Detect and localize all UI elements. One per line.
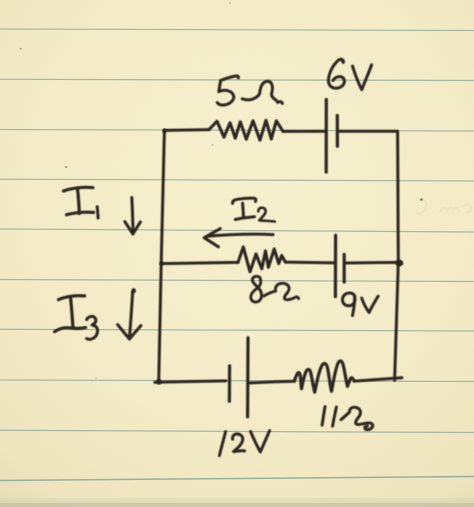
corner blob bottom-left [156, 379, 162, 385]
label I1 [64, 187, 93, 191]
label ohm after 5 [242, 81, 282, 103]
faint ink bleed-through ghosts [417, 200, 471, 214]
paper specks [20, 48, 22, 50]
label 9 [343, 293, 355, 306]
ruled lines [0, 29, 474, 433]
wire: bottom-right segment with overshoot [354, 378, 402, 381]
label I2 [233, 198, 256, 203]
battery V3 12V long plate [246, 338, 250, 417]
battery V2 9V short plate [343, 255, 346, 283]
battery V3 12V short plate [228, 366, 231, 402]
label 5 [217, 76, 238, 105]
resistor R3 11ohm humps [294, 361, 354, 392]
label I3 [59, 296, 85, 300]
label 12V [219, 432, 225, 456]
label 11ohm [322, 407, 325, 426]
junction blob middle-left [159, 261, 163, 265]
wire: middle-left horizontal segment [161, 262, 238, 263]
battery V1 6V long plate [325, 100, 328, 173]
battery V1 6V short plate [336, 116, 339, 147]
label ohm after 8 [264, 283, 299, 299]
resistor R1 5ohm zigzag [209, 120, 283, 140]
label V of 9V [362, 296, 379, 312]
wire: bottom between 12V battery and R3 [249, 381, 294, 383]
wire: middle-right segment [346, 261, 399, 265]
arrow for I1 [132, 198, 133, 231]
wire: right vertical [395, 131, 399, 380]
arrow for I3 [130, 292, 133, 337]
junction dot at right middle node [395, 260, 403, 267]
battery V2 9V long plate [334, 235, 337, 296]
corner blob top-left [162, 129, 166, 133]
wire: left vertical [159, 131, 165, 382]
wire: middle between R2 and 9V battery [285, 261, 335, 265]
wire: top-left horizontal segment [165, 128, 210, 132]
label V of 6V [353, 65, 372, 90]
arrow for I2 [207, 234, 273, 236]
wire: top between R1 and 6V battery [283, 130, 326, 133]
wire: bottom-left horizontal segment [155, 381, 226, 382]
resistor R2 8ohm zigzag [238, 247, 285, 272]
label 8 [251, 276, 262, 302]
wire: top-right horizontal segment [339, 130, 398, 133]
label 6 [328, 59, 344, 88]
